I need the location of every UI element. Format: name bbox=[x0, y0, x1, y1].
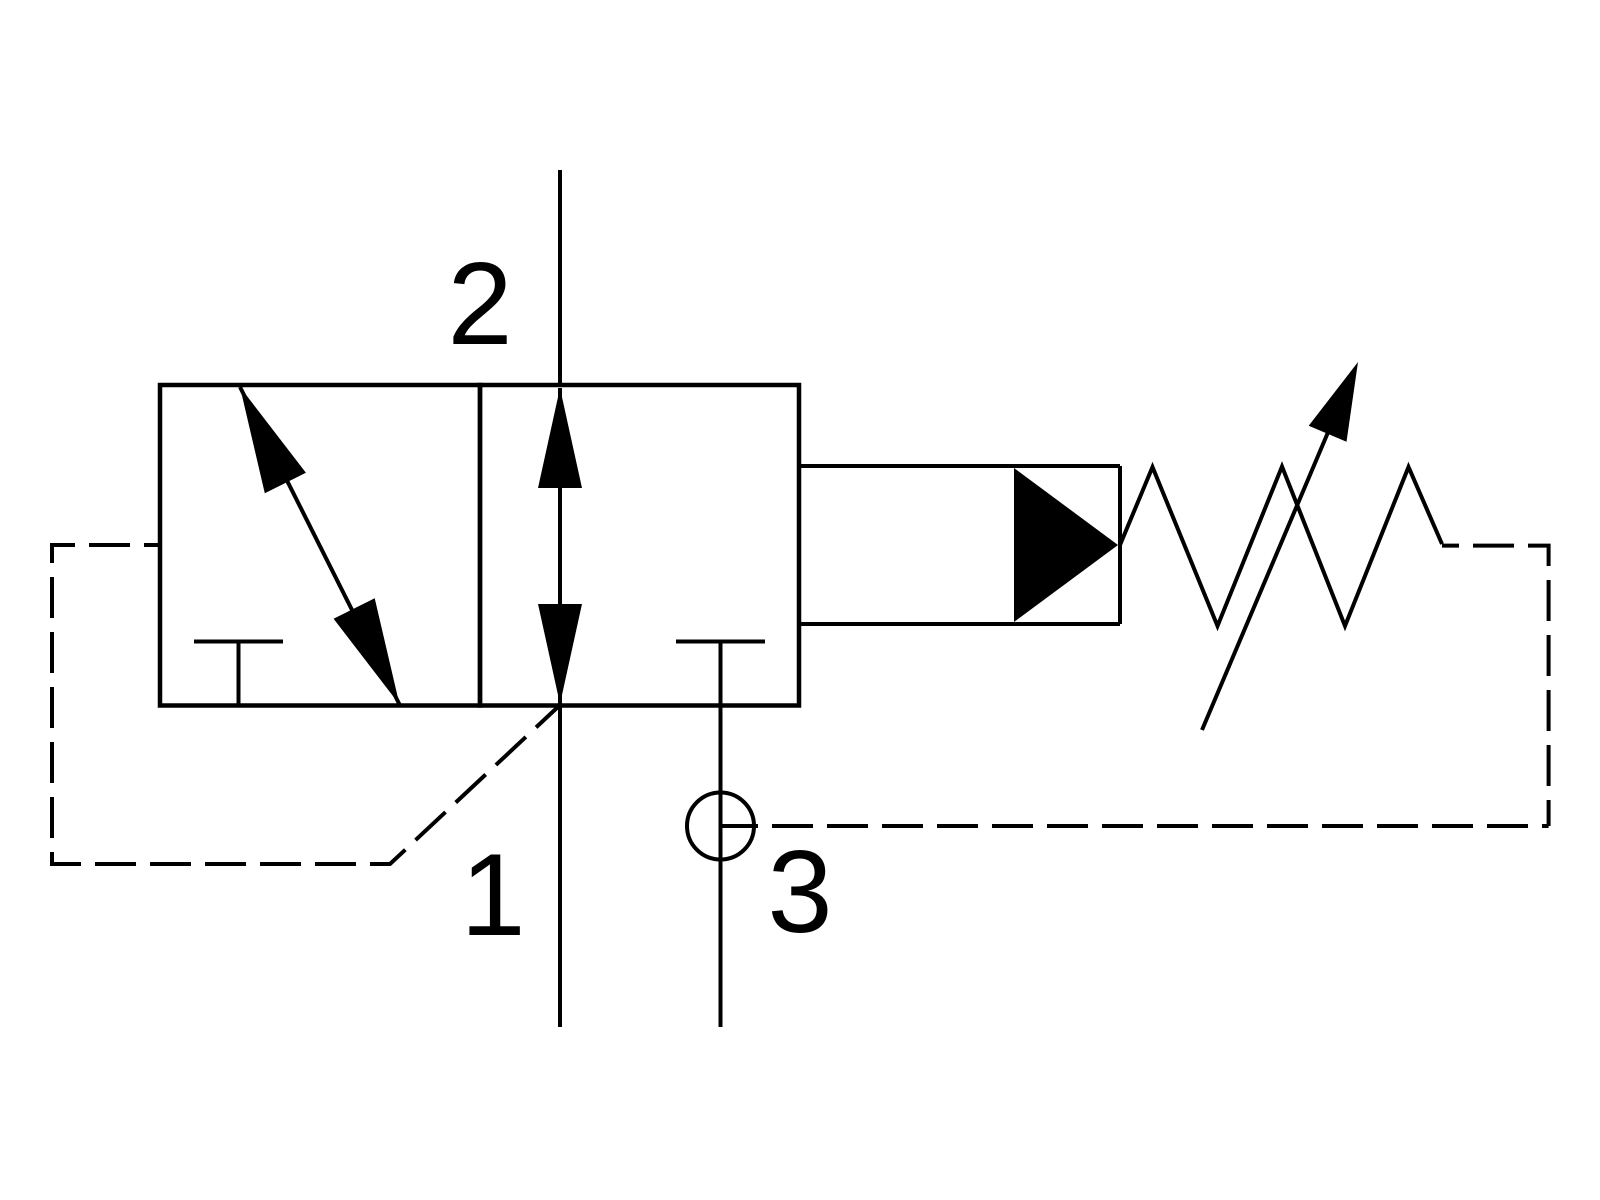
drain orifice circle at port 3 bbox=[687, 793, 754, 860]
svg-text:3: 3 bbox=[767, 826, 832, 957]
svg-text:1: 1 bbox=[460, 829, 525, 960]
pilot line left (dashed) bbox=[52, 545, 560, 864]
solenoid / pilot box bbox=[799, 466, 1120, 624]
port 2 line bbox=[558, 170, 562, 385]
solenoid triangle bbox=[1014, 468, 1118, 622]
tank symbol T right box bbox=[676, 642, 765, 706]
pilot line right (dashed) bbox=[1442, 546, 1549, 826]
spring bbox=[1120, 467, 1442, 627]
spring adjustment arrow bbox=[1202, 362, 1358, 730]
port 3 line bbox=[719, 642, 723, 1028]
port 1 line bbox=[558, 705, 562, 1027]
vertical flow arrow in right box bbox=[538, 388, 582, 704]
tank symbol T left box bbox=[194, 642, 283, 706]
valve body right position box bbox=[480, 385, 799, 706]
svg-text:2: 2 bbox=[447, 238, 512, 369]
valve body left position box bbox=[160, 385, 480, 706]
diagonal flow arrow in left box bbox=[240, 387, 400, 705]
